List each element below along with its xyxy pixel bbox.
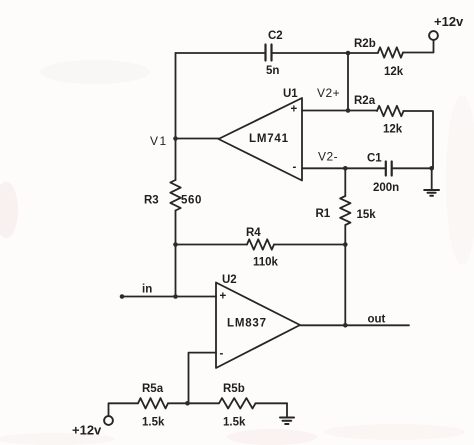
svg-text:+: + — [220, 291, 227, 303]
svg-text:12k: 12k — [384, 66, 404, 78]
svg-text:12k: 12k — [383, 124, 403, 136]
svg-text:R1: R1 — [316, 208, 331, 220]
svg-text:R5b: R5b — [223, 383, 245, 395]
svg-text:560: 560 — [181, 195, 202, 207]
svg-text:LM837: LM837 — [227, 318, 267, 330]
svg-text:LM741: LM741 — [249, 133, 289, 145]
svg-text:110k: 110k — [253, 257, 279, 269]
svg-text:15k: 15k — [357, 209, 377, 221]
svg-text:out: out — [368, 314, 386, 326]
svg-text:+: + — [291, 104, 298, 116]
svg-text:R2b: R2b — [354, 38, 376, 50]
svg-text:R2a: R2a — [354, 95, 376, 107]
svg-text:U1: U1 — [283, 88, 298, 100]
svg-text:R4: R4 — [246, 227, 261, 239]
svg-text:V1: V1 — [150, 134, 168, 148]
svg-text:U2: U2 — [222, 274, 237, 286]
svg-text:1.5k: 1.5k — [223, 417, 246, 429]
svg-text:5n: 5n — [266, 65, 279, 77]
svg-text:1.5k: 1.5k — [142, 417, 165, 429]
svg-text:-: - — [220, 348, 224, 360]
svg-text:V2+: V2+ — [317, 86, 340, 100]
svg-text:200n: 200n — [373, 182, 399, 194]
svg-text:R3: R3 — [144, 195, 159, 207]
svg-text:V2-: V2- — [318, 150, 338, 164]
svg-text:C2: C2 — [268, 30, 283, 42]
svg-text:C1: C1 — [367, 153, 382, 165]
svg-text:R5a: R5a — [142, 383, 164, 395]
svg-text:-: - — [293, 162, 297, 174]
svg-text:in: in — [142, 284, 152, 296]
svg-text:+12v: +12v — [72, 423, 102, 438]
svg-text:+12v: +12v — [434, 14, 464, 29]
